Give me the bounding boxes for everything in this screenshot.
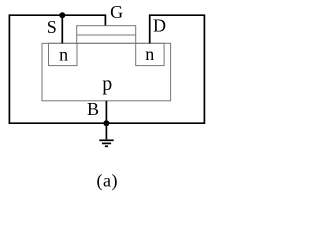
- ground symbol: [99, 140, 113, 146]
- gate stack (electrode + oxide): [77, 26, 136, 44]
- svg-text:p: p: [102, 73, 112, 95]
- svg-text:n: n: [145, 44, 154, 64]
- wire: body contact branch: [105, 101, 107, 140]
- p substrate region: [42, 43, 171, 101]
- n well left (source diffusion): [49, 43, 78, 65]
- svg-text:G: G: [110, 2, 123, 22]
- svg-text:B: B: [87, 99, 99, 119]
- wire: source contact branch: [61, 15, 63, 43]
- svg-text:n: n: [59, 44, 68, 64]
- svg-text:D: D: [153, 15, 166, 35]
- svg-text:S: S: [47, 17, 57, 37]
- svg-text:(a): (a): [97, 171, 118, 192]
- gate electrode/oxide divider: [77, 34, 136, 36]
- node: body junction dot: [103, 120, 109, 126]
- n well right (drain diffusion): [136, 43, 164, 65]
- node: source junction dot: [59, 12, 65, 18]
- wire: outer loop S-G-D tied to ground rail: [9, 15, 204, 123]
